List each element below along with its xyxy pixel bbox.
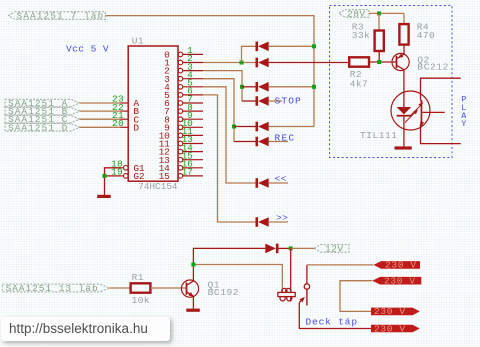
wire 230V flag2 to flag3: [340, 281, 372, 312]
transistor Q1 BC192 (NPN): [181, 280, 198, 297]
transistor Q2 BC212 (PNP): [392, 53, 409, 70]
relay coil K1: [278, 288, 295, 301]
wire flag C to pin: [80, 118, 121, 120]
wire pin2 row to diode D2: [203, 62, 256, 64]
node 12V flag: [314, 245, 349, 253]
svg-text:BC212: BC212: [417, 61, 449, 72]
svg-text:<<: <<: [275, 173, 287, 184]
wire flag to R1: [110, 287, 131, 289]
svg-text:STOP: STOP: [275, 96, 302, 107]
svg-text:230 V: 230 V: [385, 260, 417, 271]
pin O7 (pin 8) of U1: [178, 109, 183, 114]
svg-text:SAA1251 D: SAA1251 D: [8, 122, 68, 133]
svg-text:Y: Y: [461, 119, 466, 129]
resistor R2: [349, 57, 369, 66]
diode D8: [256, 217, 259, 227]
pin O5 (pin 6) of U1: [178, 93, 183, 98]
diode D2: [256, 58, 259, 68]
wire R3 bottom to base node: [378, 51, 380, 62]
svg-text:SAA1251 13 láb: SAA1251 13 láb: [6, 283, 99, 294]
svg-text:G2: G2: [133, 171, 145, 182]
wire coil left lead: [193, 265, 282, 293]
svg-text:BC192: BC192: [208, 287, 240, 298]
junction collector/coil: [191, 263, 195, 267]
pin G1 (pin 18) of U1: [124, 166, 129, 171]
ground under opto: [395, 146, 412, 149]
node 230V flag 1: [374, 261, 421, 269]
wire top flag to diode column: [105, 16, 314, 127]
node 230V flag 2: [372, 277, 421, 285]
pin O10 (pin 11) of U1: [178, 133, 183, 138]
wire Q2 collector to opto LED: [403, 70, 405, 107]
pin O15 (pin 17) of U1: [178, 174, 183, 179]
pin A (pin 23) of U1: [121, 102, 129, 104]
pin B (pin 22) of U1: [121, 110, 129, 112]
pin O4 (pin 5) of U1: [178, 85, 183, 90]
svg-text:U1: U1: [132, 35, 144, 46]
wire R4 bottom to Q2 emitter: [403, 45, 405, 55]
pin G2 (pin 19) of U1: [124, 174, 129, 179]
svg-text:10k: 10k: [132, 295, 150, 306]
svg-text:Deck táp: Deck táp: [306, 317, 358, 328]
wire 28V to junction: [369, 12, 404, 14]
pin O1 (pin 2) of U1: [178, 60, 183, 65]
node 230V flag 4: [371, 325, 420, 333]
wire G1 to ground: [105, 168, 121, 195]
svg-text:74HC154: 74HC154: [138, 181, 178, 192]
wire flag A to pin: [80, 102, 121, 104]
pin C (pin 21) of U1: [121, 118, 129, 120]
pin O13 (pin 15) of U1: [178, 157, 183, 162]
svg-text:230 V: 230 V: [374, 323, 406, 334]
pin O9 (pin 10) of U1: [178, 125, 183, 130]
wire G2 to ground: [105, 175, 121, 177]
node SAA1251_D flag: [5, 123, 80, 131]
svg-text:>>: >>: [276, 213, 288, 224]
svg-text:15: 15: [159, 171, 171, 182]
diode D5: [256, 122, 259, 132]
svg-text:12V: 12V: [325, 243, 344, 254]
node SAA1251_7_lab flag: [9, 12, 106, 20]
resistor R1: [131, 283, 151, 292]
svg-text:33k: 33k: [352, 30, 370, 41]
svg-text:28V: 28V: [347, 8, 366, 19]
wire switch common to 230V flag4: [299, 303, 371, 329]
diode D1: [256, 42, 259, 52]
wire pin4 row to D5/D6 junction: [203, 79, 234, 142]
pin O6 (pin 7) of U1: [178, 101, 183, 106]
pin O2 (pin 3) of U1: [178, 68, 183, 73]
diode D3: [256, 82, 259, 92]
wire opto collector out: [421, 78, 461, 99]
wire D8 right stub: [269, 221, 288, 223]
diode D7: [256, 178, 259, 188]
wire to 230V flag1: [307, 264, 373, 266]
svg-text:REC: REC: [275, 133, 296, 144]
op IC U1 74HC154 body: [128, 46, 178, 181]
wire opto emitter out: [421, 125, 461, 144]
svg-text:D: D: [133, 122, 139, 133]
wire pin3 row to D3/D4 junction: [203, 71, 242, 101]
svg-text:470: 470: [417, 30, 435, 41]
wire D4 right STOP stub: [269, 100, 282, 102]
dashed box play driver: [330, 6, 453, 158]
node SAA1251_13_lab flag: [2, 284, 109, 292]
junction D5/D6 left: [232, 125, 236, 129]
wire D3 right: [269, 86, 314, 88]
wire D9 to 12V flag: [279, 247, 291, 249]
pin O11 (pin 13) of U1: [178, 141, 183, 146]
wire D6 left: [234, 141, 256, 143]
wire D5 right: [269, 126, 314, 128]
wire junction to D3: [242, 86, 256, 88]
wire pin5 row to D7: [203, 87, 256, 183]
wire junction down to R3: [378, 13, 380, 30]
pin O8 (pin 9) of U1: [178, 117, 183, 122]
diode D9: [276, 244, 279, 254]
ground symbol for G1/G2: [97, 195, 111, 198]
wire Q1 emitter to ground: [192, 296, 194, 308]
junction D1 right: [312, 44, 316, 48]
ground under Q1: [186, 309, 200, 312]
wire D1 left drop: [242, 46, 256, 62]
junction R3/R2/base: [377, 60, 381, 64]
junction D1/D2 left: [240, 61, 244, 65]
junction G2/gnd: [103, 174, 107, 178]
svg-text:Vcc 5 V: Vcc 5 V: [66, 44, 109, 55]
resistor R4: [399, 24, 408, 44]
node SAA1251_B flag: [5, 107, 80, 115]
junction D3 right: [312, 85, 316, 89]
node 28V flag: [339, 10, 369, 18]
wire junction to D5: [234, 126, 256, 128]
pin O3 (pin 4) of U1: [178, 76, 183, 81]
wire coil right lead: [290, 248, 292, 301]
wire switch NO up: [306, 265, 308, 284]
node 230V flag 3: [371, 308, 420, 316]
svg-text:SAA1251 7 láb: SAA1251 7 láb: [17, 10, 105, 21]
junction D3/D4 left: [240, 85, 244, 89]
svg-text:230 V: 230 V: [384, 276, 416, 287]
svg-text:TIL111: TIL111: [360, 130, 398, 141]
node SAA1251_C flag: [5, 115, 80, 123]
wire Q1 collector up to D9: [193, 248, 265, 281]
wire D4 left: [242, 100, 256, 102]
svg-text:4k7: 4k7: [350, 79, 368, 90]
junction D9/coil: [289, 246, 293, 250]
wire D7 right stub: [269, 182, 288, 184]
wire R2 right to Q2 base: [369, 61, 397, 63]
pin D (pin 20) of U1: [121, 126, 129, 128]
pin O12 (pin 14) of U1: [178, 149, 183, 154]
wire pin6 row to D8: [203, 95, 256, 222]
svg-text:17: 17: [182, 167, 193, 178]
diode D4: [256, 96, 259, 106]
wire D2 right to R2 (PLAY net): [269, 62, 350, 64]
wire D1 right: [269, 45, 314, 47]
pin O0 (pin 1) of U1: [178, 52, 183, 57]
relay switch contact: [299, 284, 309, 306]
svg-text:R1: R1: [132, 272, 144, 283]
wire D6 right REC stub: [269, 141, 288, 143]
wire to R4 top: [403, 13, 405, 24]
wire R1 to Q1 base: [150, 287, 186, 289]
svg-text:230 V: 230 V: [374, 306, 406, 317]
node SAA1251_A flag: [5, 99, 80, 107]
wire opto base stub: [422, 111, 445, 113]
pin O14 (pin 16) of U1: [178, 166, 183, 171]
junction 28V/R3/R4: [377, 11, 381, 15]
op optocoupler U2 TIL111: [391, 91, 430, 146]
wire flag D to pin: [80, 126, 121, 128]
resistor R3: [375, 31, 384, 52]
diode D6: [256, 137, 259, 147]
wire flag B to pin: [80, 110, 121, 112]
